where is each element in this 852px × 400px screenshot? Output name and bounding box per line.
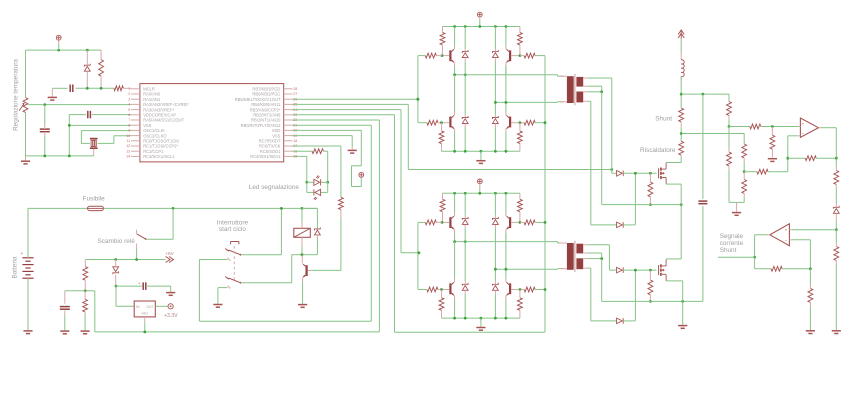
wire M1 source bend [666,184,681,205]
resistor R13 (amp + gnd) [770,127,775,158]
wire 1 QUR collector [505,27,507,47]
node rail 2 Q-left [453,192,456,195]
wire RC6 to LED resistor [293,146,341,197]
node rail 1 D-right [494,25,497,28]
inductor L1 [681,53,684,81]
node op2 + node [835,228,838,231]
diode bridge 1 lower-right [493,115,499,152]
svg-text:10: 10 [126,134,130,138]
resonator X1 [90,139,98,156]
wire RB2 to bus D [293,115,545,332]
diode bridge 1 upper-left [462,27,468,62]
node shunt bottom [680,132,683,135]
transistor bridge 1 upper-left [442,46,454,66]
wire pot top leg [25,50,27,97]
capacitor C4 (divider) [60,291,70,331]
node bus A RB5 [417,98,420,101]
svg-text:11: 11 [126,139,130,143]
power +V symbol (VDD) [359,172,364,177]
node 1 out1 D [464,73,467,76]
wire VSS left row [69,124,131,126]
ground (battery) [23,331,32,334]
transformer T1 secondary winding upper [576,77,583,87]
svg-text:+: + [21,251,24,256]
wire +V top rail [26,49,102,51]
wire 1 base bus left [418,55,425,57]
wire cap branch top [702,94,704,199]
wire 1 QUL collector [454,27,456,47]
node coil / collector [301,253,304,256]
wire dividers gnd join [729,201,744,203]
svg-text:Fusibile: Fusibile [83,195,105,202]
wire RC5 LED row [293,150,313,152]
wire MCLR row 2 [76,87,114,89]
svg-text:6: 6 [128,113,130,117]
node M1 gate / D6 [634,172,637,175]
wire segnale corrente stub [718,256,755,258]
wire 2 ground row [442,317,520,319]
node MCLR / R1 [100,87,103,90]
node base 2 lower-right [519,288,522,291]
node M2 gate / R pulldown [649,269,652,272]
wire amp - input [788,136,798,158]
node +BATT row / sw riser [280,207,283,210]
node divider mid [84,289,87,292]
resistor R16 (amp - gnd) [742,172,747,203]
wire 2 D-right mid [494,228,496,281]
wire VDDCORE row2 [92,114,131,116]
node bus D row1 bridge2 [544,221,547,224]
svg-text:+6V: +6V [165,251,174,257]
svg-text:Segnale: Segnale [720,233,744,240]
label Shunt [655,116,672,123]
ground (R20) [832,331,841,334]
node 1 out1 Q [453,73,456,76]
node gnd row 2 [505,317,508,320]
wire RB1 to battery divider [85,120,379,332]
node shunt top [680,93,683,96]
resistor R14 (amp - lower divider) [727,127,732,203]
wire coil bottom [301,247,303,255]
node VSS / VCAP drop [68,124,71,127]
node +6V / zener D4 [114,258,117,261]
wire amp out [821,128,836,159]
node 2 out2 D [494,268,497,271]
svg-text:14: 14 [126,155,130,159]
+6V supply arrow [165,251,174,263]
wire 1 base bus left vert [418,56,427,123]
node 1 out2 Q [505,101,508,104]
ground (dividers) [732,202,741,215]
resistor R19 (out chain) [834,158,839,207]
resistor bridge 1 pull-down right [518,123,523,152]
ground (VSS) [348,148,357,153]
wire shunt bottom sense [681,134,744,145]
wire 2 QUR collector [505,193,507,213]
wire bridge 2 supply rail [443,192,520,194]
node gnd row 2 [453,317,456,320]
ground (sw3) [213,305,222,308]
wire 2 QLL emitter [454,299,456,318]
+BATT supply arrow [678,30,684,39]
resistor R12 (amp + series) [750,124,761,129]
wire D8 out [623,269,656,271]
wire 1 QUL emitter [454,66,456,75]
node base 1 upper-right [519,54,522,57]
capacitor C6 (sense filter) [698,201,707,204]
wire sw3 lower to gnd [218,288,228,304]
svg-text:1: 1 [128,87,130,91]
node gnd row 2 stem [480,317,483,320]
node rail 1 D-left [464,25,467,28]
resistor bridge 1 pull-up right [518,27,523,56]
wire RB5 to base bus A [293,98,418,100]
node T2 center tap [600,257,603,260]
wire M1 source to M2 drain [680,205,682,259]
wire 2 QUL collector [454,193,456,213]
wire 1 QLL emitter [454,132,456,151]
transistor bridge 1 lower-left [442,112,454,132]
wire 2 left leg mid [454,242,456,279]
MOSFET M2 (riscaldatore lower) [659,259,667,281]
svg-text:18: 18 [293,139,297,143]
wire 1 D-right mid [494,62,496,115]
node inverting [786,157,789,160]
node op2 feedback [809,267,812,270]
wire switch out to +6V row [136,249,138,260]
node gnd row 1 [494,150,497,153]
wire VDDCORE row [69,114,86,116]
svg-text:ADJ: ADJ [142,312,149,316]
wire T2 tap down [601,259,603,302]
relay coil K1 [294,223,311,247]
resistor bridge 1 base lower-right [520,120,535,125]
node reg input [115,285,118,288]
resistor R9 (Shunt) [679,108,684,128]
node bus D row2 bridge2 [544,288,547,291]
node bus C joint [418,251,421,254]
node amp + / R13 [771,125,774,128]
label Batteria [12,256,19,278]
wire op2 out [755,235,768,257]
node 2 out1 Q [453,240,456,243]
switch S1 (Scambio rele) [137,230,147,249]
wire amp + row [729,126,750,128]
ground (Q1) [298,305,307,308]
wire 1 ground row [442,150,520,152]
svg-text:Led segnalazione: Led segnalazione [249,184,300,191]
node gnd rail / VSS [68,155,71,158]
svg-text:start ciclo: start ciclo [219,226,246,233]
svg-text:3: 3 [128,97,130,101]
node amp + divider [728,125,731,128]
wire battery bottom [27,278,29,330]
diode bridge 2 lower-right [493,281,499,318]
wire 2 QUL emitter [454,233,456,242]
resistor R15 (amp - series a) [742,144,747,172]
wire 2 output row right leg [495,268,564,271]
node base 2 upper-left [441,221,444,224]
capacitor C2 (wiper filter) [40,105,50,156]
svg-text:5: 5 [128,108,130,112]
wire 1 left leg mid [454,75,456,112]
node +6V relay rail [301,207,304,210]
diode D7 (gate rectifier) [617,171,624,177]
label Scambio rele [98,238,136,245]
wire 1 output row left leg [455,75,564,76]
node +V / supply stem [57,49,60,52]
node LED rail right [326,181,329,184]
wire bus D right vertical [544,56,546,333]
wire T2 center tap [588,253,602,259]
diode D9 (gate rectifier) [617,318,624,324]
wire ground rail [26,155,94,157]
ground (C5) [166,293,175,296]
wire OSC2 route [98,136,131,144]
resistor R17 (amp gain) [757,169,768,174]
wire op2 feedback b [782,268,810,270]
resistor bridge 2 pull-down right [518,290,523,319]
node rail 2 supply [478,192,481,195]
diode bridge 2 upper-right [493,193,499,228]
op-amp U4 (segnale corrente) [768,224,792,246]
transistor bridge 2 upper-left [442,213,454,233]
label Riscaldatore [640,147,676,154]
svg-text:13: 13 [126,149,130,153]
transistor bridge 1 upper-right [506,46,518,66]
node gnd row 2 [464,317,467,320]
wire M2 drain bend [666,258,681,260]
wire base chain down [311,218,341,270]
wire M1 gate row b [623,172,656,174]
wire 2 QUR emitter [505,233,507,242]
switch S2 (start ciclo upper) [225,242,241,261]
node rail 1 Q-left [453,25,456,28]
wire op2 + row [792,229,837,231]
wire 2 base bus left vert [418,222,427,289]
wire divider to cap [65,290,85,292]
wire VSS drop [68,115,70,156]
wire Q1 emitter [302,282,304,304]
capacitor C3 (VCAP) [88,111,91,119]
wire op2 - input [792,240,811,269]
node M1 source row / R7 [649,203,652,206]
fuse F1 (Fusibile) [88,206,104,210]
power +V symbol (MCLR pull-up supply) [56,35,61,44]
diode bridge 2 lower-left [462,281,468,318]
wire pot bottom to ground rail [25,113,27,156]
resistor R20 (op2 + gnd) [834,230,839,330]
ground (analog rail) [21,156,30,164]
wire feedback row [788,157,805,159]
node base 1 upper-left [441,54,444,57]
node gnd row 1 [505,150,508,153]
node M2 source row / R8 [649,300,652,303]
wire RB3 to bus C [293,110,419,253]
wire +BATT row 2 [104,207,318,209]
svg-text:Regolazione temperatura: Regolazione temperatura [13,59,20,131]
wire T2 top pin route [588,245,617,270]
resistor bridge 2 base lower-left [427,287,442,292]
node relay switch feed [172,207,175,210]
wire 1 D-left mid [464,62,466,115]
capacitor C5 (reg input) [138,280,146,290]
ground (bridge 2) [476,318,485,330]
svg-text:4: 4 [128,103,130,107]
label Interruttore start ciclo [217,219,249,233]
resistor R21 (op2 feedback) [771,266,782,271]
svg-text:Riscaldatore: Riscaldatore [640,147,676,154]
resistor R22 (op2 gnd) [808,269,813,330]
node +6V / switch [135,258,138,261]
wire diode branch top [302,208,317,228]
node M2 gate / D9 [634,269,637,272]
svg-text:OUT: OUT [146,305,153,309]
wire sw1 to +6V riser [241,208,281,254]
transformer T1 core [574,74,576,105]
node M1 source row / M2 drain [680,203,683,206]
wire reg ADJ down [144,322,146,332]
battery B1 (Batteria) [21,251,34,278]
resistor bridge 2 pull-up right [518,193,523,222]
transformer T1 primary winding [567,76,574,103]
resistor bridge 2 base upper-left [425,220,442,225]
node M2 source row / gnd stem [681,300,684,303]
resistor bridge 1 base upper-left [425,53,442,58]
svg-text:Batteria: Batteria [12,256,19,278]
label Regolazione temperatura [13,59,20,131]
svg-text:Shunt: Shunt [720,247,737,254]
wire T1 tap down [601,92,603,205]
svg-text:RC3/SCK1/SCL1: RC3/SCK1/SCL1 [143,154,175,159]
power +V symbol (bridge 2) [477,179,482,187]
wire T1 center tap [588,86,602,92]
wire 2 D-left mid [464,228,466,281]
resistor R10 (Riscaldatore) [679,141,684,156]
switch S3 (start ciclo lower) [225,277,241,289]
transistor bridge 1 lower-right [506,112,518,132]
wire LED1 row [307,181,314,183]
wire zener to reg IN [116,286,135,306]
svg-text:corrente: corrente [720,240,744,247]
node rail 2 D-left [464,192,467,195]
wire bridge 1 supply rail [443,26,520,28]
wire +BATT stem [680,39,682,54]
resistor R2 (MCLR series) [114,86,131,91]
MOSFET M1 (riscaldatore upper) [659,163,667,185]
wire M1 gate row [612,172,617,174]
node rail 2 D-right [494,192,497,195]
wire sw1 lower contact to RB0 loop [199,259,227,261]
node out / feedback [835,157,838,160]
op-amp U3 (shunt amplifier) [798,118,821,137]
wire amp - to inverting node [768,158,788,172]
label Fusibile [83,195,105,202]
wire reg OUT [155,305,168,307]
node gnd rail / C2 [43,155,46,158]
svg-text:9: 9 [128,129,130,133]
wire RC5 LED rail [323,151,327,182]
wire diode branch bottom [302,247,317,255]
svg-text:27: 27 [293,92,297,96]
svg-text:IN: IN [136,305,140,309]
resistor bridge 1 base upper-right [520,53,535,58]
resistor R3 (LED series) [312,149,323,154]
transformer T1 secondary winding lower [576,92,583,103]
wire LED1 row b [321,181,328,183]
label Segnale corrente Shunt [720,233,744,254]
wire L1 to shunt [680,76,682,108]
resistor bridge 1 pull-up left [440,27,445,56]
node op2 out / label [753,256,756,259]
diode D8 (gate rectifier) [617,267,624,273]
transformer T1 pin stubs [560,76,588,102]
wire LED2 rail right [321,182,328,192]
diode D5 (flyback) [315,227,321,246]
wire bridge 2 supply stem [479,187,481,194]
wire M2 source row [602,300,703,302]
ground (C4) [60,331,69,334]
node ADJ / divider row [143,331,146,334]
node gnd row 1 [464,150,467,153]
wire 2 base bus left [418,221,425,223]
wire 2 right leg mid [505,233,507,279]
node base 1 lower-right [519,121,522,124]
resistor bridge 2 pull-up left [440,193,445,222]
svg-text:8: 8 [128,123,130,127]
ground (R6) [81,331,90,334]
node 2 out2 Q [505,268,508,271]
wire 2 output row left leg [455,242,564,243]
wire +6V row [85,259,165,261]
wire 1 QLR emitter [505,132,507,151]
wire pot wiper to RA2 [28,104,131,106]
wire T1 bottom pin route [588,101,617,225]
wire amp + row b [761,126,798,128]
LED D2 (segnalazione) [314,175,321,185]
wire feedback to out [816,157,836,159]
wire sw3 to coil node [241,255,302,283]
node RB5 bus A [417,98,420,101]
node 2 out1 D [464,240,467,243]
node M1 gate / R pulldown [649,172,652,175]
wire 1 QUR emitter [505,66,507,75]
transformer T2 secondary winding upper [576,244,583,254]
wire amp - row [744,171,757,173]
ground (heater return) [678,326,687,329]
node amp - divider [743,170,746,173]
diode bridge 1 lower-left [462,115,468,152]
wire 2 base bus right row2 [535,289,545,291]
ground (MCLR filter) [48,88,57,100]
diode bridge 2 upper-left [462,193,468,228]
node gnd row 2 [494,317,497,320]
wire out chain to op2 [835,222,837,230]
transformer T2 pin stubs [560,243,588,269]
label Led segnalazione [249,184,300,191]
svg-text:2: 2 [128,92,130,96]
wire M1 source row [602,204,682,206]
transistor Q1 (relay driver) [302,255,311,282]
wire C5 to ground [147,286,171,292]
wire RC4 LED rail [293,156,307,182]
wire 2 base bus right [535,221,545,223]
transformer T2 core [574,241,576,272]
resistor R6 (divider bottom) [83,291,88,331]
voltage regulator U2 (+3.3V) [134,301,155,322]
wire supply stem [58,45,60,51]
potentiometer wiper (Regolazione temperatura) [19,98,28,113]
